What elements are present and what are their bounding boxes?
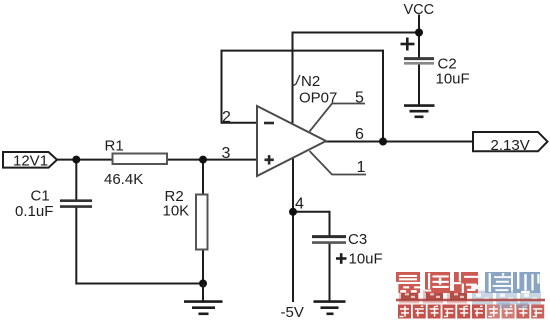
svg-text:5: 5 — [355, 90, 364, 107]
wire feedback top horizontal — [221, 50, 384, 52]
svg-text:OP07: OP07 — [299, 90, 337, 107]
svg-text:3: 3 — [222, 145, 231, 162]
wire pin4 to C3 horizontal — [293, 211, 330, 213]
C2 plus sign — [401, 38, 415, 51]
watermark char 培 — [485, 272, 511, 293]
wire input to R1 and pin 3 — [57, 159, 257, 161]
svg-text:0.1uF: 0.1uF — [15, 203, 53, 220]
svg-text:46.4K: 46.4K — [104, 171, 143, 188]
svg-text:2: 2 — [222, 109, 231, 126]
svg-text:4: 4 — [295, 196, 304, 213]
wire pin 4 vertical to -5V — [292, 156, 294, 302]
wire C3 bottom to ground — [329, 244, 331, 302]
C3 plus sign — [336, 253, 347, 264]
wire output pin 6 — [325, 141, 473, 143]
resistor R2 — [196, 195, 208, 250]
junction dot pin 4 — [289, 208, 297, 216]
N2 leader line — [293, 75, 301, 86]
wire C2 bottom to ground — [418, 64, 420, 106]
capacitor C2 — [404, 59, 434, 64]
wire pin 7 horizontal to VCC — [292, 32, 420, 34]
wire feedback right vertical — [382, 50, 384, 142]
watermark stamp: faded second-layer logo — [399, 291, 467, 304]
watermark char 拓 — [454, 272, 479, 293]
watermark underline strip — [396, 299, 545, 302]
svg-text:N2: N2 — [301, 73, 320, 90]
capacitor C1 — [60, 201, 92, 207]
svg-text:6: 6 — [355, 126, 364, 143]
svg-text:C1: C1 — [31, 187, 50, 204]
wire R2 vertical — [202, 160, 204, 284]
op-amp minus sign — [264, 122, 274, 125]
svg-text:2.13V: 2.13V — [491, 137, 530, 154]
wire C1 bottom to rail — [75, 207, 77, 285]
watermark slogan row — [398, 305, 544, 319]
wire pin 7 vertical — [292, 33, 294, 127]
wire VCC stem — [418, 15, 420, 59]
wire C3 top vertical — [329, 211, 331, 236]
svg-text:10uF: 10uF — [349, 251, 383, 268]
ground C2 — [404, 106, 435, 117]
op-amp U/N2 triangle — [257, 106, 326, 176]
ground C3 — [314, 302, 346, 314]
svg-text:1: 1 — [357, 159, 366, 176]
junction dot node 3 — [199, 156, 207, 164]
svg-text:C3: C3 — [348, 231, 367, 248]
watermark char 迪 — [425, 272, 450, 293]
ground left — [184, 284, 223, 314]
svg-text:10uF: 10uF — [436, 71, 470, 88]
port 2.13V output tag — [473, 132, 548, 151]
svg-text:10K: 10K — [163, 203, 190, 220]
junction dot VCC — [415, 29, 423, 37]
svg-text:VCC: VCC — [404, 2, 435, 18]
capacitor C3 — [312, 237, 346, 243]
wire pin 2 — [222, 122, 259, 124]
svg-text:12V1: 12V1 — [13, 153, 48, 170]
svg-text:R1: R1 — [105, 137, 124, 154]
op-amp plus sign — [265, 155, 274, 164]
junction dot output node 6 — [379, 138, 387, 146]
pin 1 stub — [310, 151, 367, 175]
junction dot input — [72, 156, 80, 164]
svg-text:-5V: -5V — [281, 304, 304, 321]
pin 5 stub — [310, 104, 366, 132]
wire feedback left vertical — [221, 51, 223, 124]
watermark char 训 — [513, 272, 540, 293]
port 12V1 input tag — [3, 152, 57, 168]
resistor R1 — [113, 154, 168, 165]
junction dot bottom rail — [199, 280, 207, 288]
wire bottom rail — [76, 283, 203, 285]
watermark char 易 — [396, 272, 420, 293]
wire C1 branch vertical — [75, 160, 77, 200]
